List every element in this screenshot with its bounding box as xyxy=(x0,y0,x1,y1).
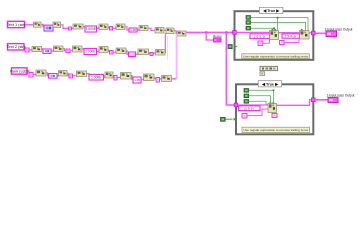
wire boolean F to selector structure2 xyxy=(225,118,232,120)
regex string constant 1 xyxy=(250,34,270,39)
tunnel input left structure2 xyxy=(234,103,238,107)
numeric control Num xyxy=(10,68,29,74)
constant 1.05 row1 xyxy=(129,28,137,32)
regex string constant 2 xyxy=(282,34,300,38)
function block row3-5 xyxy=(121,73,132,80)
boolean constant F structure1 xyxy=(228,45,232,49)
numeric constant 1.000E row3 xyxy=(89,75,104,81)
boolean wire 5 xyxy=(249,96,271,104)
function block row1-5 xyxy=(116,24,125,30)
tunnel input left structure1 xyxy=(233,31,237,35)
match pattern block 3 xyxy=(268,104,277,113)
wire s1a to match block xyxy=(263,40,270,44)
svg-text:Text 2 (str): Text 2 (str) xyxy=(7,44,26,49)
constant 1.05 row3 xyxy=(133,77,141,83)
label 1-input pass Output xyxy=(327,94,355,98)
tunnel output right structure1 xyxy=(312,31,316,35)
wire match block output structure2 xyxy=(277,100,313,106)
small string constant row2-b xyxy=(110,51,114,55)
case structure 1 frame xyxy=(235,11,314,60)
string control Text 1 xyxy=(7,21,26,27)
junction node A xyxy=(205,31,207,33)
boolean tunnel 1 structure1 xyxy=(246,16,251,20)
case structure 2 frame xyxy=(236,84,313,134)
boolean tunnel 3 structure1 xyxy=(246,26,251,30)
wire structure1 internal string xyxy=(236,31,270,33)
svg-text:Use regular expression to remo: Use regular expression to remove trailin… xyxy=(243,54,308,58)
svg-text:◀ True ▶: ◀ True ▶ xyxy=(262,9,280,13)
wire structure1 to output xyxy=(315,32,326,34)
svg-text:[^0-9.-]+: [^0-9.-]+ xyxy=(254,34,265,38)
case structure 1 selector True xyxy=(259,7,283,13)
svg-text:1.000E: 1.000E xyxy=(86,27,96,31)
small string constant row1-b xyxy=(110,27,113,31)
wire row3 output to vertical riser xyxy=(172,78,177,80)
wire structure2 to output xyxy=(315,99,328,101)
wire s1b to match block 2 xyxy=(284,39,299,43)
small string constant s1a xyxy=(258,41,263,45)
function block row3-6 xyxy=(144,74,155,81)
small string constant row1-a xyxy=(69,27,72,30)
function block row2-5 xyxy=(116,48,126,54)
wire branch down to lower case structure xyxy=(226,32,234,105)
function block row1-4 xyxy=(99,24,108,30)
svg-text:[^0-9.-]+: [^0-9.-]+ xyxy=(285,34,296,38)
numeric constant 1.000E xyxy=(85,26,97,32)
wire row3 chain xyxy=(27,71,29,74)
small string constant s1b xyxy=(280,41,285,45)
boolean wire 3 xyxy=(251,28,275,30)
constant box row2 icon xyxy=(43,49,51,53)
junction node B xyxy=(225,31,227,33)
function block row2-6 xyxy=(138,49,149,55)
svg-text:1.05: 1.05 xyxy=(134,78,140,82)
merge block row1-row2 xyxy=(166,28,174,34)
constant box row3 icon xyxy=(49,74,58,79)
svg-text:Text 1 (str): Text 1 (str) xyxy=(7,22,26,27)
wire branch to Before indicator xyxy=(206,32,213,40)
selector terminal structure1 xyxy=(235,45,238,47)
function block row2-4 xyxy=(99,47,108,53)
boolean wire 4 xyxy=(249,90,274,103)
svg-text:1.000E: 1.000E xyxy=(91,76,101,80)
label 2-input pass Output xyxy=(325,27,353,31)
function block row3-7 xyxy=(162,76,172,82)
function block row2-3 xyxy=(73,46,83,52)
grayed small constant xyxy=(260,72,265,76)
svg-text:1.05: 1.05 xyxy=(129,53,135,57)
comment banner structure1 xyxy=(242,54,309,59)
svg-text:[0-9.-]+: [0-9.-]+ xyxy=(244,106,254,110)
string indicator 2-input pass Output xyxy=(326,31,337,37)
function block row3-2 xyxy=(59,71,68,77)
wire faint stub xyxy=(167,36,169,60)
grayed constant box xyxy=(260,66,278,70)
numeric constant 1.000E row2 xyxy=(84,49,97,55)
tunnel output right structure2 xyxy=(312,98,316,102)
string indicator 1-input pass Output xyxy=(328,97,338,102)
wire main output to structures xyxy=(186,31,233,33)
function block row3-1 xyxy=(36,70,46,76)
match pattern block 1 xyxy=(270,31,279,40)
function block row1-2 xyxy=(53,22,61,28)
wire row2 output up to merge xyxy=(164,33,166,52)
match pattern block 2 xyxy=(300,31,310,40)
comment banner structure2 xyxy=(242,127,310,132)
svg-text:Num (u32): Num (u32) xyxy=(10,68,29,73)
small string constant s2a xyxy=(242,114,247,119)
function block row1-7 xyxy=(155,28,164,34)
small string constant s2b xyxy=(272,114,277,118)
function block row2-2 xyxy=(54,46,64,52)
wire row2 chain xyxy=(24,47,25,50)
merge block row12-row3 xyxy=(177,31,186,36)
svg-text:◀ True ▶: ◀ True ▶ xyxy=(261,82,279,86)
small string constant row3-a xyxy=(69,74,73,78)
selector terminal structure2 xyxy=(234,118,237,121)
wire structure2 internal string xyxy=(238,104,268,106)
wire vertical riser row3 to merge block xyxy=(176,36,178,79)
small string constant row3-pre xyxy=(29,73,33,78)
function block row1-1 xyxy=(34,22,42,27)
svg-text:Use regular expression to remo: Use regular expression to remove trailin… xyxy=(243,128,308,132)
small string constant row2-c xyxy=(150,53,153,56)
function block row2-1 xyxy=(32,46,42,51)
boolean constant F structure2 xyxy=(221,117,226,121)
boolean wire 6 xyxy=(249,101,268,105)
label Before xyxy=(213,34,222,38)
constant box row1 icon xyxy=(44,25,53,31)
boolean wire 2 xyxy=(251,22,306,30)
function block row3-4 xyxy=(105,72,113,78)
regex string constant 3 xyxy=(239,106,261,111)
boolean tunnel 1 structure2 xyxy=(244,89,249,93)
wire row1 chain xyxy=(25,24,34,26)
string control Text 2 xyxy=(7,44,26,50)
boolean tunnel 2 structure1 xyxy=(246,21,251,25)
function block row2-7 xyxy=(156,50,166,56)
svg-text:Before: Before xyxy=(213,34,222,38)
svg-text:1.05: 1.05 xyxy=(130,28,136,32)
function block row3-3 xyxy=(77,71,87,77)
small string constant row3-c xyxy=(156,78,160,83)
function block row1-3 xyxy=(73,24,83,29)
small string constant row2-pre xyxy=(25,48,29,52)
wire s2a to match block xyxy=(247,109,268,116)
string indicator Before xyxy=(214,38,222,42)
boolean tunnel 2 structure2 xyxy=(244,94,249,98)
svg-text:1.000E: 1.000E xyxy=(85,50,95,54)
small string constant row2-a xyxy=(66,49,70,53)
boolean tunnel 3 structure2 xyxy=(244,100,249,104)
small string constant row3-b xyxy=(114,76,117,81)
case structure 2 selector True xyxy=(258,81,282,87)
constant 1.05 row2 xyxy=(129,52,136,57)
boolean wire 1 xyxy=(251,18,309,31)
function block row1-6 xyxy=(139,26,148,31)
